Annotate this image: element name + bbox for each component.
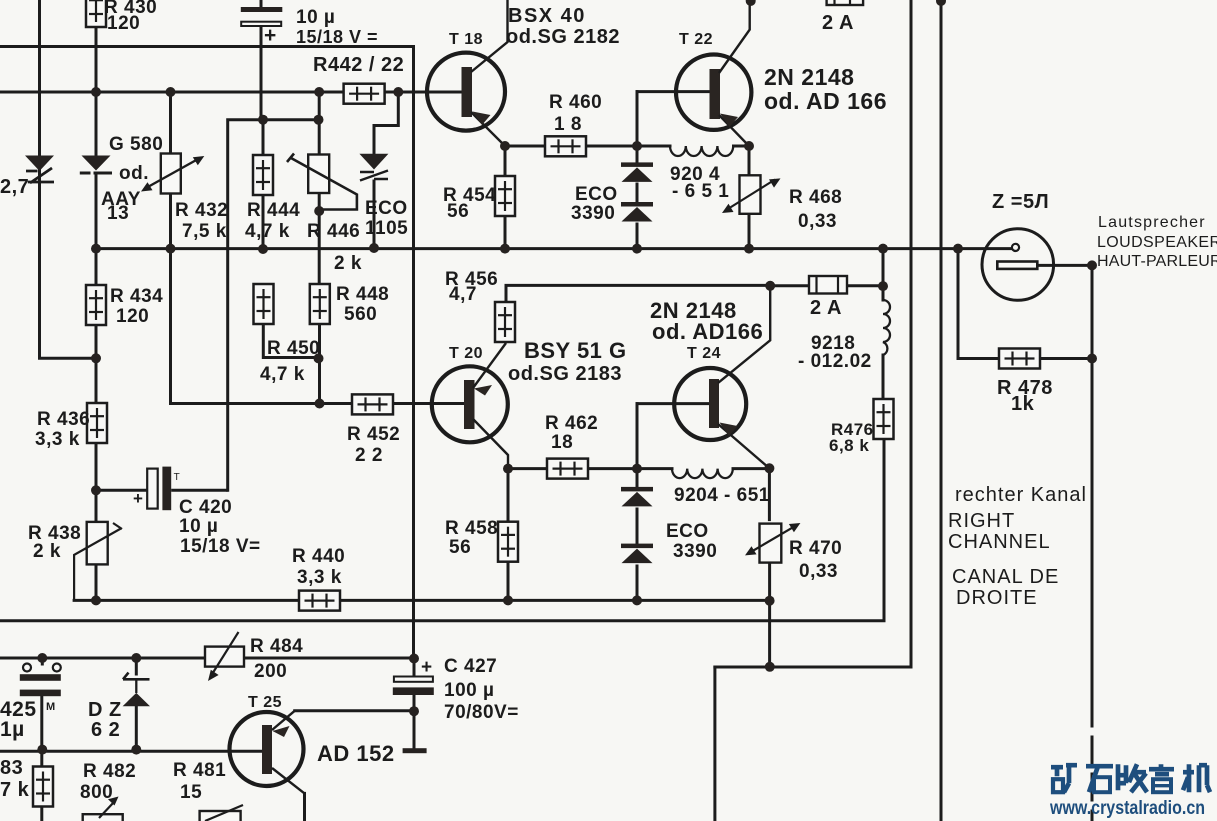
svg-text:R 432: R 432 [175, 200, 228, 221]
svg-text:- 012.02: - 012.02 [798, 351, 872, 372]
svg-text:83: 83 [0, 757, 23, 779]
svg-text:2 k: 2 k [33, 541, 61, 562]
svg-text:3,3 k: 3,3 k [35, 429, 80, 450]
svg-text:70/80V=: 70/80V= [444, 702, 519, 723]
svg-text:6,8 k: 6,8 k [829, 436, 869, 455]
svg-text:4,7 k: 4,7 k [260, 364, 305, 385]
svg-text:R 481: R 481 [173, 760, 226, 781]
svg-text:Z =5Л: Z =5Л [992, 191, 1049, 213]
svg-text:od.SG 2182: od.SG 2182 [506, 26, 620, 48]
svg-text:15/18 V=: 15/18 V= [180, 536, 261, 557]
svg-text:od.SG 2183: od.SG 2183 [508, 363, 622, 385]
svg-text:100 µ: 100 µ [444, 680, 494, 701]
svg-text:200: 200 [254, 661, 287, 682]
svg-text:15/18 V =: 15/18 V = [296, 27, 378, 47]
svg-text:BSX 40: BSX 40 [508, 5, 586, 27]
svg-text:R 444: R 444 [247, 200, 300, 221]
svg-text:R442 / 22: R442 / 22 [313, 54, 404, 76]
svg-text:0,33: 0,33 [799, 561, 838, 582]
svg-text:2 A: 2 A [810, 297, 842, 319]
svg-text:R 434: R 434 [110, 286, 163, 307]
svg-text:15: 15 [180, 782, 202, 803]
svg-text:2 2: 2 2 [355, 445, 383, 466]
svg-text:BSY 51 G: BSY 51 G [524, 338, 627, 363]
svg-text:9204 - 651: 9204 - 651 [674, 485, 770, 506]
svg-text:R 460: R 460 [549, 92, 602, 113]
svg-text:LOUDSPEAKER: LOUDSPEAKER [1097, 234, 1217, 251]
svg-text:R 462: R 462 [545, 413, 598, 434]
svg-text:od.: od. [119, 163, 149, 184]
svg-text:R 436: R 436 [37, 409, 90, 430]
svg-text:AD 152: AD 152 [317, 741, 395, 766]
svg-text:T 25: T 25 [248, 694, 282, 711]
svg-text:120: 120 [107, 13, 140, 34]
svg-text:T: T [174, 472, 180, 483]
svg-text:2,7: 2,7 [0, 176, 29, 198]
svg-text:R 452: R 452 [347, 424, 400, 445]
svg-text:DROITE: DROITE [956, 587, 1038, 609]
svg-text:rechter Kanal: rechter Kanal [955, 484, 1087, 506]
svg-text:CHANNEL: CHANNEL [948, 531, 1051, 553]
svg-text:2 k: 2 k [334, 253, 362, 274]
svg-text:D Z: D Z [88, 699, 122, 721]
svg-text:1105: 1105 [365, 218, 408, 239]
svg-text:www.crystalradio.cn: www.crystalradio.cn [1049, 798, 1205, 819]
svg-text:R 482: R 482 [83, 761, 136, 782]
svg-text:R 458: R 458 [445, 518, 498, 539]
svg-text:3390: 3390 [673, 541, 717, 562]
svg-text:+: + [133, 489, 143, 508]
svg-text:800: 800 [80, 782, 113, 803]
svg-text:2 A: 2 A [822, 12, 854, 34]
svg-text:R 470: R 470 [789, 538, 842, 559]
svg-text:CANAL DE: CANAL DE [952, 566, 1059, 588]
svg-text:3390: 3390 [571, 203, 615, 224]
svg-text:1k: 1k [1011, 393, 1035, 415]
svg-text:T 24: T 24 [687, 345, 721, 362]
svg-text:R 450: R 450 [267, 338, 320, 359]
svg-text:Lautsprecher: Lautsprecher [1098, 214, 1206, 231]
svg-text:R 468: R 468 [789, 187, 842, 208]
svg-text:R 440: R 440 [292, 546, 345, 567]
svg-text:56: 56 [447, 201, 469, 222]
svg-text:1µ: 1µ [0, 718, 25, 741]
svg-text:ECO: ECO [365, 198, 408, 219]
svg-text:RIGHT: RIGHT [948, 510, 1015, 532]
svg-text:C 420: C 420 [179, 497, 232, 518]
svg-text:7,5 k: 7,5 k [182, 221, 227, 242]
svg-text:M: M [46, 701, 56, 713]
svg-text:C 427: C 427 [444, 656, 497, 677]
svg-text:R 446: R 446 [307, 221, 360, 242]
svg-text:T 22: T 22 [679, 31, 713, 48]
svg-text:2N 2148: 2N 2148 [764, 64, 854, 90]
svg-text:HAUT-PARLEUR: HAUT-PARLEUR [1097, 253, 1217, 270]
svg-text:0,33: 0,33 [798, 211, 837, 232]
svg-text:od. AD 166: od. AD 166 [764, 88, 887, 114]
svg-text:56: 56 [449, 537, 471, 558]
svg-text:ECO: ECO [575, 184, 618, 205]
svg-text:- 6 5 1: - 6 5 1 [672, 181, 729, 202]
svg-text:ECO: ECO [666, 521, 709, 542]
svg-text:4,7 k: 4,7 k [245, 221, 290, 242]
svg-text:od. AD166: od. AD166 [652, 319, 763, 344]
svg-text:13: 13 [107, 203, 129, 224]
svg-text:10 µ: 10 µ [179, 516, 218, 537]
svg-text:10 µ: 10 µ [296, 7, 335, 28]
svg-text:18: 18 [551, 432, 573, 453]
svg-text:4,7: 4,7 [449, 284, 477, 305]
svg-text:6 2: 6 2 [91, 719, 120, 741]
svg-text:R 448: R 448 [336, 284, 389, 305]
svg-text:1 8: 1 8 [554, 114, 582, 135]
svg-text:7 k: 7 k [0, 779, 30, 801]
svg-text:T 18: T 18 [449, 31, 483, 48]
svg-text:R 484: R 484 [250, 636, 303, 657]
svg-text:T 20: T 20 [449, 345, 483, 362]
svg-text:G 580: G 580 [109, 134, 163, 155]
svg-text:+: + [264, 24, 276, 47]
svg-text:560: 560 [344, 304, 377, 325]
svg-text:120: 120 [116, 306, 149, 327]
svg-text:+: + [421, 657, 432, 678]
svg-text:3,3 k: 3,3 k [297, 567, 342, 588]
